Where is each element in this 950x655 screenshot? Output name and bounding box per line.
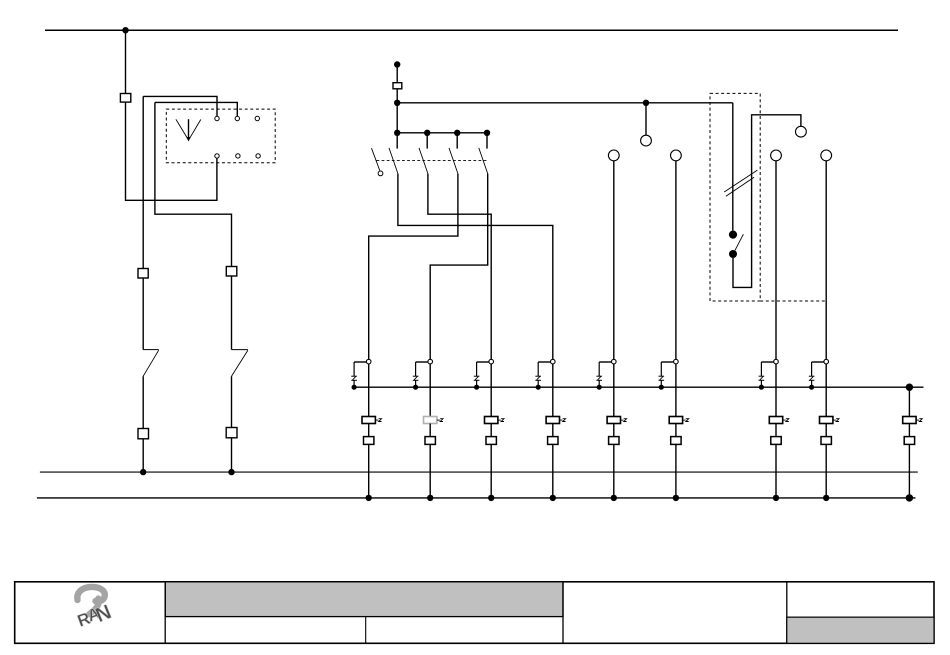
trip branch C1 — [351, 362, 366, 387]
wire — [825, 424, 827, 437]
pin 2 top — [235, 116, 239, 120]
switch S1 contact top — [729, 231, 737, 239]
fuse striker C7 — [783, 419, 789, 422]
wire — [490, 424, 492, 437]
lamp H4 — [671, 150, 682, 161]
pin 6 bottom — [256, 154, 260, 158]
switch dashed enclosure — [710, 93, 760, 301]
relay K1 dashed box — [166, 109, 275, 163]
wire C2 through bus — [429, 364, 431, 417]
logo RAV — [75, 587, 115, 631]
fuse striker C2 — [437, 419, 443, 422]
fuse striker C6 — [683, 419, 689, 422]
wire — [429, 424, 431, 437]
wire — [142, 376, 144, 428]
fuse C1 — [362, 417, 375, 424]
lamp H6 — [821, 150, 832, 161]
junction rail A col1 — [140, 469, 146, 475]
trip branch C5 — [596, 362, 611, 387]
breaker Q2 — [232, 350, 248, 377]
wire contact3 to column C1 — [369, 174, 458, 360]
trip branch C7 — [759, 362, 774, 387]
junction bus C2 — [413, 385, 418, 390]
wire — [908, 424, 910, 437]
junction bus C6 — [659, 385, 664, 390]
cell divider right of band — [562, 582, 564, 644]
wire — [231, 376, 233, 427]
rail A (neutral) — [40, 471, 918, 473]
fuse striker C5 — [621, 419, 627, 422]
wire — [396, 89, 398, 133]
wire feeder down — [125, 30, 127, 93]
wire — [142, 278, 144, 350]
wire — [142, 439, 144, 472]
breaker Q1 — [143, 350, 159, 377]
wire to rail B — [675, 444, 677, 498]
lamp H1 — [641, 135, 652, 146]
terminal X1 — [138, 269, 148, 279]
pin 5 bottom — [236, 154, 240, 158]
wire C6 through bus — [675, 364, 677, 417]
fuse C3 — [485, 417, 498, 424]
wire — [645, 103, 647, 135]
wire — [613, 161, 615, 359]
cell divider right — [786, 582, 788, 644]
junction bus C5 — [597, 385, 602, 390]
column C4 terminal circle — [551, 359, 556, 364]
junction rail B C2 — [427, 495, 433, 501]
wire — [231, 438, 233, 472]
wire switch drop — [732, 103, 734, 231]
pin 3 top — [255, 116, 259, 120]
junction rail B C8 — [823, 495, 829, 501]
fuse striker C9 — [916, 419, 922, 422]
column C5 terminal circle — [612, 359, 617, 364]
fuse striker C1 — [375, 419, 381, 422]
column C2 terminal circle — [428, 359, 433, 364]
isolation slashes — [724, 170, 757, 196]
wire to right section — [397, 102, 733, 104]
fuse C9 — [903, 417, 916, 424]
fuse C6 — [669, 417, 682, 424]
fuse C2 — [424, 417, 437, 424]
switch S1 contact bottom — [729, 250, 737, 258]
fuse F1 — [120, 94, 130, 103]
fuse F2 — [393, 83, 402, 89]
pin 4 bottom — [215, 154, 219, 158]
cell divider left — [164, 582, 166, 644]
lamp H2 — [796, 126, 807, 137]
terminal block C5 — [609, 437, 619, 445]
wire to rail B — [490, 444, 492, 498]
fuse C8 — [820, 417, 833, 424]
junction top-bus feed — [122, 27, 128, 33]
title block — [15, 582, 934, 644]
junction contact bus — [394, 130, 400, 136]
junction bus C7 — [759, 385, 764, 390]
wire C1 through bus — [368, 364, 370, 417]
node middle feed — [394, 61, 400, 67]
junction bus C8 — [809, 385, 814, 390]
pin 1 top — [215, 116, 219, 120]
wire C8 through bus — [825, 364, 827, 417]
terminal X3 — [226, 267, 237, 277]
wire C5 through bus — [613, 364, 615, 417]
wire — [825, 161, 827, 359]
wire to rail B — [775, 444, 777, 498]
aux contact K2.5 — [372, 148, 383, 176]
wire — [368, 424, 370, 437]
arrow symbol — [176, 119, 201, 141]
junction rail B C9 — [906, 494, 913, 501]
fuse striker C3 — [498, 419, 504, 422]
wire — [613, 424, 615, 437]
trip branch C3 — [474, 362, 489, 387]
wire contact1 to column C4 — [398, 174, 553, 360]
wire — [775, 424, 777, 437]
wire to rail B — [429, 444, 431, 498]
wire — [126, 102, 217, 200]
wire col9 — [908, 387, 910, 416]
wire to rail B — [552, 444, 554, 498]
wire to rail B — [368, 444, 370, 498]
contact K2.4 — [479, 133, 488, 174]
junction bus C1 — [352, 385, 357, 390]
wire switch return — [733, 115, 801, 288]
gray right bottom cell — [787, 617, 934, 643]
junction bus C4 — [536, 385, 541, 390]
contact K2.3 — [449, 133, 458, 174]
fuse C4 — [546, 417, 559, 424]
cell divider mid bottom — [365, 617, 367, 644]
wire — [231, 276, 233, 350]
wire contact2 to column C3 — [428, 174, 491, 360]
terminal block C3 — [486, 437, 496, 445]
column C1 terminal circle — [366, 359, 371, 364]
lamp H5 — [771, 150, 782, 161]
wire pin1 up — [143, 96, 217, 116]
terminal block C6 — [671, 437, 681, 445]
junction rail B C7 — [773, 495, 779, 501]
fuse striker C8 — [833, 419, 839, 422]
junction k4 — [484, 130, 490, 136]
junction lamp H1 tap — [643, 100, 649, 106]
wire C3 through bus — [490, 364, 492, 417]
junction rail B C1 — [366, 495, 372, 501]
terminal block C8 — [821, 437, 831, 445]
column C7 terminal circle — [774, 359, 779, 364]
wire to rail B — [825, 444, 827, 498]
junction bus col9 — [906, 384, 913, 391]
wire — [396, 65, 398, 83]
wire breaker column 2 — [155, 102, 232, 266]
wire to rail B — [613, 444, 615, 498]
terminal block C2 — [425, 437, 435, 445]
fuse C5 — [607, 417, 620, 424]
wire — [675, 161, 677, 359]
gray header band — [165, 582, 563, 617]
lamp H3 — [608, 150, 619, 161]
top bus L1 — [45, 29, 898, 31]
wire C7 through bus — [775, 364, 777, 417]
column C3 terminal circle — [489, 359, 494, 364]
contact K2.2 — [419, 133, 428, 174]
wire — [552, 424, 554, 437]
junction rail B C3 — [488, 495, 494, 501]
wire C4 through bus — [552, 364, 554, 417]
terminal block C9 — [904, 437, 914, 445]
terminal X2 — [138, 429, 149, 439]
title block outer frame — [15, 582, 934, 644]
contact feed bus — [397, 132, 487, 134]
terminal X4 — [226, 428, 237, 438]
junction k3 — [454, 130, 460, 136]
distribution bus — [352, 386, 924, 388]
right cell split — [787, 616, 934, 618]
distribution columns — [351, 359, 922, 501]
wire contact4 to column C2 — [430, 174, 488, 360]
junction k2 — [424, 130, 430, 136]
wire — [775, 161, 777, 359]
trip branch C4 — [535, 362, 550, 387]
junction rail A col2 — [228, 469, 234, 475]
column C8 terminal circle — [824, 359, 829, 364]
junction feed-right — [394, 100, 400, 106]
switch S1 blade — [735, 234, 743, 250]
junction bus C3 — [474, 385, 479, 390]
fuse striker C4 — [560, 419, 566, 422]
wire breaker column 1 — [142, 96, 144, 268]
terminal block C4 — [548, 437, 558, 445]
junction rail B C5 — [611, 495, 617, 501]
wire to rail B — [908, 444, 910, 498]
wire pin2 up — [155, 102, 237, 116]
trip branch C2 — [413, 362, 428, 387]
terminal block C7 — [771, 437, 781, 445]
linkage dashed — [377, 159, 488, 161]
trip branch C6 — [659, 362, 674, 387]
rail B (earth) — [37, 497, 916, 499]
contact K2.1 — [389, 133, 398, 174]
junction rail B C6 — [673, 495, 679, 501]
terminal block C1 — [364, 437, 374, 445]
trip branch C8 — [809, 362, 824, 387]
dashed linkage to H4 — [760, 300, 826, 302]
wire — [675, 424, 677, 437]
fuse C7 — [769, 417, 782, 424]
junction rail B C4 — [550, 495, 556, 501]
column C6 terminal circle — [674, 359, 679, 364]
